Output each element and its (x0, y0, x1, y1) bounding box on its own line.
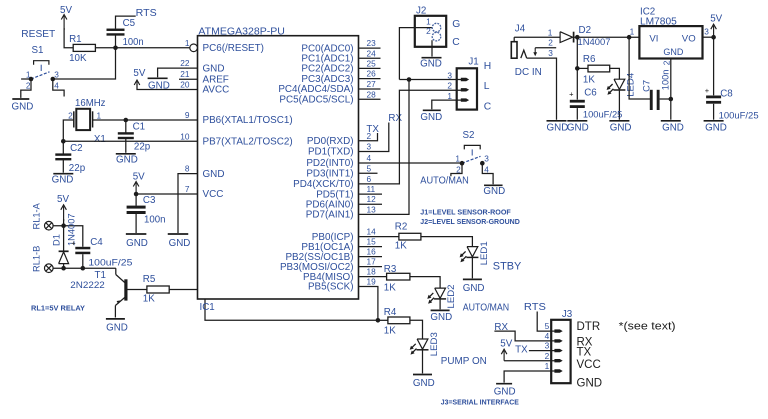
IC1 pin 16 PB2(SS/OC1B) (285, 247, 376, 263)
svg-text:PD0(RXD): PD0(RXD) (307, 136, 354, 147)
IC IC1 ATMEGA328P-PU body (198, 36, 359, 299)
svg-text:TX: TX (515, 344, 528, 355)
wire IC1 pin 22 (GND) to ground (158, 68, 198, 77)
svg-text:1K: 1K (384, 283, 396, 294)
svg-text:RX: RX (388, 113, 402, 124)
svg-text:G: G (452, 19, 460, 30)
svg-text:GND: GND (106, 322, 128, 333)
IC1 pin 24 PC1(ADC1) (301, 48, 376, 64)
resistor R6 (577, 67, 588, 69)
capacitor C3 (135, 194, 137, 206)
svg-text:S1: S1 (32, 45, 44, 56)
svg-text:GND: GND (547, 122, 569, 133)
svg-text:4: 4 (367, 153, 372, 163)
svg-text:GND: GND (203, 169, 225, 180)
LED LED2 (435, 288, 446, 298)
svg-text:TX: TX (577, 347, 592, 359)
svg-text:VO: VO (682, 34, 696, 45)
svg-text:14: 14 (367, 227, 377, 237)
svg-text:GND: GND (430, 312, 452, 323)
capacitor C6 100uF/25 (576, 68, 578, 99)
svg-text:R2: R2 (395, 222, 408, 233)
svg-text:VCC: VCC (203, 189, 224, 200)
svg-text:7: 7 (185, 184, 190, 194)
label J2 pin names (452, 19, 460, 48)
power +5V symbol (VCC) (135, 183, 137, 194)
IC1 pin 9 PB6(XTAL1/TOSC1) (185, 110, 293, 126)
svg-text:1: 1 (97, 110, 102, 120)
IC1 pin 2 PD0(RXD) (307, 131, 372, 147)
svg-text:3: 3 (545, 341, 550, 351)
svg-text:15: 15 (367, 237, 377, 247)
wire stub (359, 67, 381, 69)
svg-text:10: 10 (180, 131, 190, 141)
wire R3 to LED2 (410, 277, 440, 289)
svg-text:GND: GND (494, 387, 516, 398)
svg-text:6: 6 (367, 174, 372, 184)
svg-text:PC6(/RESET): PC6(/RESET) (203, 43, 264, 54)
ground J4 (547, 120, 567, 122)
wire stub (359, 203, 383, 205)
svg-text:1: 1 (26, 69, 31, 79)
wire IC2 VO to 5V node (703, 36, 714, 38)
svg-text:X1: X1 (94, 134, 106, 145)
IC1 pin 10 PB7(XTAL2/TOSC2) (180, 131, 292, 147)
svg-text:25: 25 (367, 58, 377, 68)
svg-text:GND: GND (12, 102, 34, 113)
node sensor junction (407, 77, 412, 82)
capacitor C5 (115, 35, 117, 48)
wire to IC1 pin 7 (VCC) (136, 193, 197, 195)
svg-text:5V: 5V (500, 338, 512, 349)
svg-text:TX: TX (366, 124, 379, 135)
svg-text:5: 5 (545, 321, 550, 331)
svg-text:2: 2 (545, 351, 550, 361)
ground C7/IC2 (661, 120, 681, 122)
node 5V output junction (711, 35, 716, 40)
svg-text:LED2: LED2 (446, 285, 457, 309)
svg-text:100uF/25: 100uF/25 (719, 110, 759, 120)
IC1 pin 17 PB3(MOSI/OC2) (280, 257, 376, 273)
wire 5V to J3 pin 2 (504, 360, 555, 362)
svg-text:RL1=5V RELAY: RL1=5V RELAY (31, 305, 85, 312)
svg-text:GND: GND (483, 186, 505, 197)
svg-text:RTS: RTS (136, 8, 157, 19)
svg-text:4: 4 (484, 164, 489, 174)
svg-text:16: 16 (367, 247, 377, 257)
wire S2 pin 2 hook (451, 163, 462, 176)
svg-text:J4: J4 (515, 23, 526, 34)
IC1 pin 3 PD1(TXD) (308, 142, 372, 158)
wire jack pin 2 stub (535, 47, 556, 49)
node R6/C6 junction (575, 66, 580, 71)
node R4/R5 junction (376, 318, 381, 323)
svg-text:4: 4 (545, 331, 550, 341)
wire S2 pin 4 to ground (482, 163, 493, 184)
wire crystal left to C2/pin10 node (63, 120, 74, 141)
power +5V symbol (relay) (63, 206, 65, 221)
svg-text:10K: 10K (69, 53, 87, 64)
svg-text:S2: S2 (463, 130, 475, 141)
svg-text:22: 22 (180, 58, 190, 68)
svg-text:9: 9 (185, 110, 190, 120)
svg-text:2: 2 (447, 81, 452, 91)
note J1 J2 sensors (420, 210, 520, 227)
svg-text:GND: GND (705, 122, 727, 133)
svg-text:+: + (71, 239, 76, 248)
wire stub (359, 246, 383, 248)
svg-text:2: 2 (548, 38, 553, 48)
wire R6 to LED4 (610, 68, 620, 79)
wire J1 pin 1 to ground (432, 100, 462, 109)
power +5V symbol (output) (713, 26, 715, 38)
svg-text:4: 4 (54, 81, 59, 91)
LED LED3 (417, 339, 428, 349)
wire J1 pin 2 to IC1 pin 6 (359, 90, 462, 184)
svg-text:1K: 1K (143, 293, 155, 304)
svg-text:12: 12 (367, 194, 377, 204)
wire R4 to LED3 (410, 320, 423, 339)
wire IC1 pin 19 to R4 junction (359, 287, 378, 321)
svg-text:GND: GND (420, 112, 442, 123)
IC1 pin 1 PC6(/RESET) (185, 38, 264, 54)
node VCC junction (134, 192, 139, 197)
IC1 pin 20 AVCC (180, 80, 229, 96)
svg-text:GND: GND (663, 47, 684, 57)
svg-text:VCC: VCC (577, 359, 601, 371)
power +5V symbol (AVCC pin 20) (137, 84, 198, 90)
wire stub (359, 266, 383, 268)
resistor R2 (399, 233, 421, 240)
IC1 pin 28 PC5(ADC5/SCL) (279, 89, 376, 105)
wire RL1-B rail to T1 collector (53, 267, 116, 269)
ground LED3 (413, 374, 432, 376)
svg-text:3: 3 (484, 153, 489, 163)
wire 12V rail D2 to IC2 (574, 36, 639, 38)
svg-text:1K: 1K (583, 75, 595, 86)
svg-text:VI: VI (649, 34, 658, 45)
svg-text:22p: 22p (134, 142, 151, 153)
node RESET junction (113, 46, 118, 51)
ground C6 (567, 120, 587, 122)
svg-text:1K: 1K (384, 326, 396, 337)
capacitor C8 100uF/25 (713, 37, 715, 95)
svg-text:5: 5 (367, 163, 372, 173)
svg-text:1K: 1K (395, 241, 407, 252)
wire 12V rail jack to D2 (514, 36, 560, 38)
wire stub (359, 193, 383, 195)
svg-text:GND: GND (52, 175, 74, 186)
wire PD1 pin 3 to RX stub (359, 123, 389, 152)
svg-text:13: 13 (367, 204, 377, 214)
svg-text:2: 2 (26, 81, 31, 91)
wire crystal right to IC1 pin 9 (93, 119, 198, 121)
IC1 pin 13 PD7(AIN1) (306, 204, 376, 220)
wire junction to IC1 pin 13 (359, 80, 410, 215)
svg-text:1: 1 (426, 17, 431, 27)
wire stub (359, 47, 381, 49)
ground S2 (484, 184, 503, 186)
wire stub (359, 88, 381, 90)
svg-text:LED4: LED4 (626, 72, 637, 97)
svg-text:C8: C8 (720, 89, 733, 100)
svg-text:AVCC: AVCC (203, 85, 230, 96)
svg-text:D2: D2 (579, 25, 592, 36)
svg-text:1: 1 (185, 38, 190, 48)
wire S1 pin 4 hook (53, 79, 64, 97)
LED LED1 (467, 247, 478, 257)
wire J2 pin 1 down to junction row (399, 28, 432, 80)
svg-text:GND: GND (203, 63, 225, 74)
power +5V symbol (J3 VCC) (503, 351, 505, 361)
node rail junction C7 (627, 35, 632, 40)
svg-text:RTS: RTS (524, 302, 547, 313)
ground IC1 pin 8 (168, 233, 189, 235)
svg-text:R1: R1 (69, 34, 82, 45)
svg-text:C6: C6 (584, 88, 597, 99)
ground C2 (53, 173, 73, 175)
wire 5V to RL1-A rail (63, 219, 65, 226)
svg-text:J3=SERIAL INTERFACE: J3=SERIAL INTERFACE (441, 399, 519, 406)
svg-text:GND: GND (463, 283, 485, 294)
svg-text:26: 26 (367, 69, 377, 79)
svg-text:19: 19 (367, 277, 377, 287)
svg-text:GND: GND (116, 155, 138, 166)
svg-text:GND: GND (169, 238, 191, 249)
resistor R3 (387, 273, 410, 280)
svg-text:+: + (705, 86, 710, 95)
LED LED4 (614, 79, 625, 89)
svg-text:2N2222: 2N2222 (70, 280, 105, 290)
svg-text:22p: 22p (69, 163, 86, 174)
svg-text:PB5(SCK): PB5(SCK) (308, 282, 354, 293)
wire stub (359, 98, 381, 100)
wire RL1-A rail to C4 (53, 226, 83, 247)
svg-text:18: 18 (367, 267, 377, 277)
svg-text:AUTO/MAN: AUTO/MAN (463, 303, 510, 314)
svg-text:24: 24 (367, 48, 377, 58)
transistor T1 2N2222 (115, 268, 117, 274)
node rail junction R6/C6 (575, 35, 580, 40)
wire RTS to J3 pin 5 (537, 312, 555, 332)
svg-text:3: 3 (447, 70, 452, 80)
wire stub (359, 78, 381, 80)
svg-text:5V: 5V (57, 194, 69, 205)
svg-text:C1: C1 (133, 122, 146, 133)
svg-text:DTR: DTR (577, 321, 601, 333)
node D1 anode junction (61, 266, 66, 271)
wire J2 pin 2 to ground (431, 40, 433, 56)
wire junction to J1 pin 3 (399, 79, 461, 81)
node C4 junction (81, 266, 86, 271)
wire IC1 pin 21 (AREF) stub (179, 78, 198, 80)
ground IC1 pin 22 (148, 77, 168, 79)
svg-text:GND: GND (126, 238, 148, 249)
svg-text:1: 1 (447, 91, 452, 101)
wire 5V to R1 (64, 28, 73, 48)
svg-text:GND: GND (413, 378, 435, 389)
wire IC1 pin 4 to S2 (359, 162, 462, 164)
IC1 pin 11 PD5(T1) (316, 184, 375, 200)
svg-text:*(see text): *(see text) (619, 321, 676, 333)
svg-text:GND: GND (610, 122, 632, 133)
svg-text:RL1-A: RL1-A (32, 202, 42, 229)
svg-text:C: C (452, 37, 460, 48)
svg-text:3: 3 (54, 69, 59, 79)
svg-text:100n: 100n (123, 37, 144, 48)
wire S1 pin 1 stub (21, 78, 31, 80)
svg-text:C3: C3 (143, 195, 156, 206)
wire stub (359, 57, 381, 59)
svg-text:2: 2 (426, 26, 431, 36)
svg-text:21: 21 (180, 69, 190, 79)
svg-text:C4: C4 (90, 237, 103, 248)
power +5V symbol (reset pull-up) (63, 16, 65, 30)
ground S1 (12, 98, 29, 100)
svg-text:H: H (484, 61, 491, 72)
svg-text:IC1: IC1 (200, 302, 215, 313)
terminal RL1-B (45, 264, 54, 273)
svg-text:PB7(XTAL2/TOSC2): PB7(XTAL2/TOSC2) (203, 137, 293, 148)
diode D1 1N4007 (flyback) (63, 226, 65, 251)
svg-text:100n: 100n (660, 70, 670, 91)
svg-text:100n: 100n (144, 215, 166, 226)
IC1 pin 6 PD4(XCK/T0) (293, 174, 371, 190)
ground LED2 (431, 309, 450, 311)
svg-text:23: 23 (367, 38, 377, 48)
svg-text:STBY: STBY (493, 260, 522, 272)
svg-text:1: 1 (548, 28, 553, 38)
capacitor C7 100n (629, 37, 650, 99)
wire jack pin 3 to ground (527, 58, 557, 120)
svg-text:AUTO/MAN: AUTO/MAN (420, 176, 469, 187)
label J3 pin names (577, 321, 603, 389)
svg-text:GND: GND (420, 59, 442, 70)
IC1 pin 8 GND (185, 164, 225, 180)
svg-text:J1: J1 (468, 57, 478, 68)
svg-text:PUMP ON: PUMP ON (441, 356, 487, 367)
svg-text:5V: 5V (60, 5, 72, 16)
wire rail to R6/C6 (576, 37, 578, 68)
node XTAL1 junction (124, 118, 129, 123)
wire R5 to PB0 net (169, 290, 378, 321)
ground C1 (116, 153, 136, 155)
IC1 pin 1 inversion bubble (190, 44, 198, 52)
svg-text:J3: J3 (562, 309, 573, 320)
svg-text:LED1: LED1 (479, 241, 490, 265)
wire S1 pin 2 to ground (21, 79, 31, 98)
ground LED1 (463, 278, 482, 280)
wire R2 to LED1 (421, 237, 473, 247)
svg-text:PD1(TXD): PD1(TXD) (308, 147, 354, 158)
svg-text:1: 1 (545, 361, 550, 371)
IC1 pin 4 PD2(INT0) (306, 153, 371, 169)
svg-text:R6: R6 (583, 54, 596, 65)
svg-text:17: 17 (367, 257, 377, 267)
IC1 pin 22 GND (180, 58, 224, 74)
wire RX to J3 pin 4 (494, 331, 555, 341)
svg-text:3: 3 (704, 27, 709, 37)
svg-text:LED3: LED3 (429, 332, 440, 356)
resistor R1 (73, 44, 95, 51)
svg-text:+: + (569, 90, 574, 99)
svg-text:R4: R4 (384, 307, 397, 318)
svg-text:5V: 5V (710, 13, 722, 24)
svg-text:20: 20 (180, 80, 190, 90)
IC1 pin 23 PC0(ADC0) (301, 38, 376, 54)
svg-text:3: 3 (548, 48, 553, 58)
svg-text:C: C (484, 101, 492, 112)
svg-text:8: 8 (185, 164, 190, 174)
IC1 pin 19 PB5(SCK) (308, 277, 376, 293)
wire J3 pin 1 to ground (504, 371, 555, 383)
IC1 pin 7 VCC (185, 184, 223, 200)
svg-text:16MHz: 16MHz (75, 98, 106, 109)
IC1 pin 25 PC2(ADC2) (301, 58, 376, 74)
wire R1 to IC1 pin 1 (95, 47, 189, 49)
wire pin 10 rail (63, 140, 197, 142)
svg-text:RESET: RESET (21, 29, 55, 40)
ground LED4 (609, 120, 629, 122)
wire IC1 pin 8 (GND) to ground (178, 174, 198, 233)
wire TX to J3 pin 3 (529, 350, 556, 352)
svg-text:27: 27 (367, 79, 377, 89)
svg-text:PC5(ADC5/SCL): PC5(ADC5/SCL) (279, 95, 353, 106)
svg-text:1N4007: 1N4007 (578, 37, 611, 47)
wire PD0 pin 2 to TX stub (359, 133, 378, 141)
ground J2 (422, 57, 442, 59)
IC1 pin 26 PC3(ADC3) (301, 69, 376, 85)
IC1 pin 12 PD6(AIN0) (306, 194, 376, 210)
svg-text:2: 2 (456, 164, 461, 174)
svg-text:C7: C7 (641, 80, 651, 92)
IC1 pin 21 AREF (180, 69, 229, 85)
IC1 pin 18 PB4(MISO) (303, 267, 376, 283)
svg-text:PC3(ADC3): PC3(ADC3) (301, 74, 353, 85)
svg-text:R3: R3 (384, 264, 397, 275)
wire stub (359, 256, 383, 258)
svg-text:11: 11 (367, 184, 376, 194)
wire IC1 pin 18 to R3 (359, 276, 387, 278)
node XTAL2 junction (61, 139, 66, 144)
label J1 pin names (484, 61, 492, 112)
svg-text:C5: C5 (123, 18, 136, 29)
svg-text:ATMEGA328P-PU: ATMEGA328P-PU (198, 26, 285, 37)
ground J3 (496, 383, 512, 385)
svg-text:100uF/25: 100uF/25 (583, 109, 623, 119)
terminal RL1-A (45, 221, 54, 230)
IC1 pin 15 PB1(OC1A) (301, 237, 376, 253)
svg-text:DC IN: DC IN (515, 66, 542, 78)
ground T1 emitter (106, 318, 125, 320)
svg-text:1: 1 (455, 153, 460, 163)
svg-text:GND: GND (577, 377, 603, 389)
resistor R4 (378, 319, 388, 321)
svg-text:28: 28 (367, 89, 377, 99)
svg-text:PD7(AIN1): PD7(AIN1) (306, 210, 354, 221)
svg-text:5V: 5V (133, 171, 145, 182)
wire S1 pin 3 to RESET junction (53, 48, 116, 79)
diode D2 1N4007 (560, 32, 573, 43)
svg-text:PB6(XTAL1/TOSC1): PB6(XTAL1/TOSC1) (203, 115, 293, 126)
ground J1 (423, 109, 441, 111)
svg-text:RL1-B: RL1-B (32, 246, 42, 272)
svg-text:GND: GND (567, 122, 589, 133)
wire IC2 GND pin 2 (670, 59, 672, 120)
wire IC1 pin 14 to R2 (359, 236, 399, 238)
svg-text:PD3(INT1): PD3(INT1) (306, 169, 353, 180)
svg-text:GND: GND (662, 122, 684, 133)
